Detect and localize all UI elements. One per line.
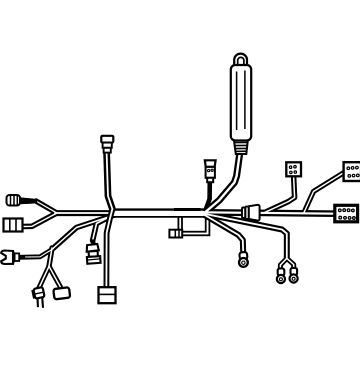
wire round connector C4 to J2 (white core) (26, 249, 54, 258)
vertical wire C3-to-C6 crossing over trunk at left hub (106, 152, 112, 288)
wire square connector C7 down to harness (black) (264, 176, 295, 213)
cylinder top eyelet arch (234, 54, 247, 68)
connector C6 (bottom rectangular connector) (99, 287, 116, 303)
wire right hub to twin ring fork (black) (203, 214, 287, 259)
connector C2 (3-segment rectangle, lower left) (4, 219, 23, 232)
twin fork right leg (black) (287, 258, 294, 270)
junction J2 (round connector Y split) (53, 248, 54, 249)
horizontal wire right hub to connector C9 (black) (203, 212, 336, 213)
wire small connector S down to right hub (black, solid) (205, 181, 210, 212)
terminal T1 (two-prong bulb socket, bottom left) (32, 287, 47, 309)
trunk J1 to left hub (white core) (55, 212, 117, 214)
wire left hub to stacked connector C5 (black) (93, 216, 111, 241)
wire down to C6 (white core) (106, 209, 112, 288)
wire to twin ring fork (white core) (203, 214, 287, 259)
cylinder inner lines (236, 72, 238, 131)
cylinder (sensor/antenna tube, top) (231, 54, 251, 154)
main trunk left hub to right hub (black) (113, 208, 203, 217)
connector C4 (open-jaw bullet connector, far left) (1, 251, 19, 265)
wire C2 to junction J1 (black) (23, 213, 57, 226)
connector S (small connector above right hub) (205, 160, 216, 182)
wire round connector C4 to J2 (black) (19, 249, 54, 258)
connector C7 (square connector with pin dots) (286, 162, 301, 176)
cylinder wire (white core) (206, 153, 240, 212)
wire to stacked connector C5 (white core) (93, 216, 111, 241)
wire to single ring terminal (white core) (203, 214, 243, 253)
fork right leg (white core) (49, 266, 60, 287)
branch wire up to connector C8 (black) (304, 173, 344, 213)
wire C2 to junction J1 (white core) (23, 213, 57, 226)
wire J2 down to fork (white core) (49, 248, 52, 266)
junction J1 (left wires merge point) (57, 213, 58, 214)
wire C1 to junction J1 (black) (36, 201, 57, 213)
fork right leg to terminal T2 (black) (49, 266, 60, 287)
wire left hub to Y junction J2 (black) (54, 215, 117, 249)
connector C5 (stacked grommet connector) (86, 239, 101, 263)
wire across trunk down to bottom connector C6 (black) (106, 209, 112, 288)
terminal T3b (right twin ring terminal) (290, 268, 298, 283)
twin fork right leg (white core) (287, 258, 294, 270)
terminal T4 (single ring terminal) (239, 252, 248, 267)
main trunk (white core) (113, 211, 203, 216)
wire J2 down to fork (black) (49, 248, 52, 266)
wire top connector C3 (white core) (107, 152, 113, 209)
connector C3 (small vertical connector top left) (101, 136, 113, 153)
wire right hub to single ring terminal T4 (black) (203, 214, 243, 253)
terminal T2 (flat pad connector) (53, 287, 70, 299)
cylinder ribbed neck (234, 141, 248, 155)
wire square connector C7 (white core) (264, 176, 295, 213)
horizontal wire to C9 (white core) (203, 212, 336, 213)
fork left leg to terminal T1 (black) (39, 266, 49, 288)
ferrule F1 (tapered grommet on horizontal wire) (242, 205, 260, 221)
twin fork left leg (black) (280, 258, 286, 270)
twin fork left leg (white core) (280, 258, 286, 270)
wire C1 to junction J1 (white core) (36, 201, 57, 213)
connector C9 (right middle connector, heavy border) (335, 205, 358, 222)
cylinder body (231, 65, 251, 141)
wire left hub to Y junction J2 (white core) (54, 215, 117, 249)
node H2 (right harness hub) (203, 213, 204, 214)
bracket (center mounting bracket behind trunk, double-line frame) (169, 209, 209, 237)
terminal T3a (left twin ring terminal) (277, 268, 285, 283)
node H1 (left harness hub) (114, 213, 115, 214)
branch wire to C8 (white core) (304, 173, 344, 213)
bracket thick top edge over trunk (174, 208, 201, 211)
wire top connector C3 down across trunk (black) (107, 152, 113, 209)
trunk J1 to left hub (black) (55, 210, 117, 216)
connector C8 (top right connector with pin dots) (344, 162, 360, 181)
wire cylinder down to right hub (black) (206, 153, 240, 212)
connector C1 (ribbed barrel, upper left) (7, 195, 38, 206)
fork left leg (white core) (39, 266, 49, 288)
